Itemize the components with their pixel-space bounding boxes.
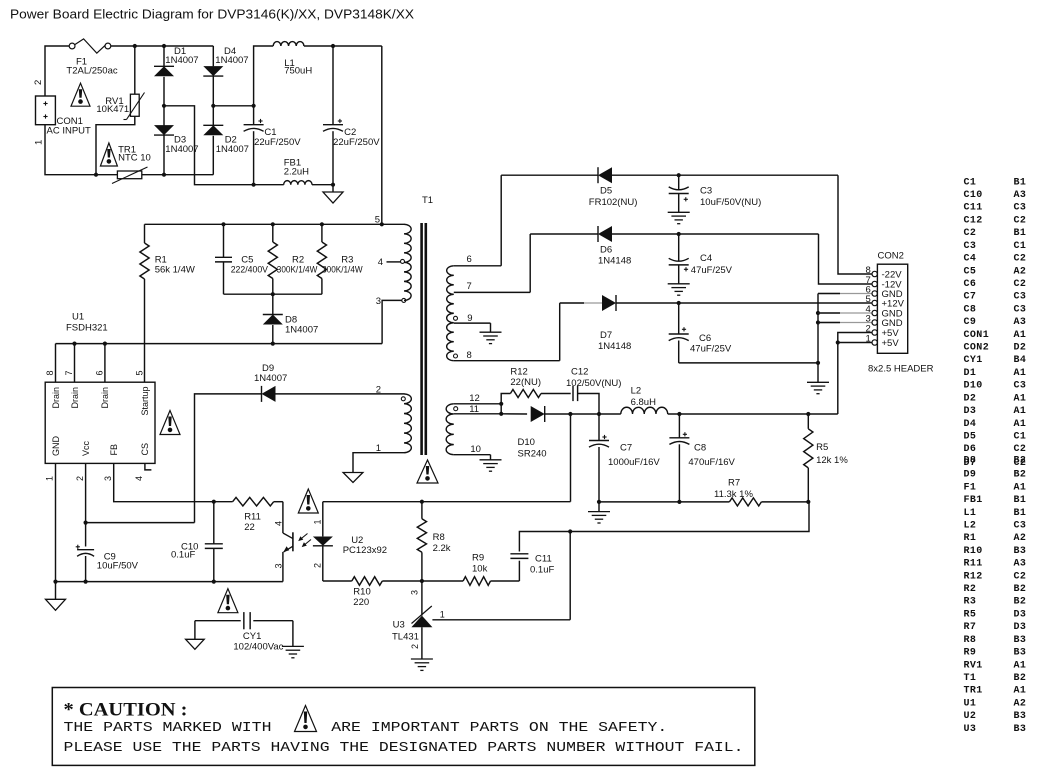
svg-text:U2: U2 [964,711,977,722]
svg-text:D7: D7 [600,330,612,341]
node +5V sense [568,412,572,416]
resistor R1 56k 1/4W [140,224,195,382]
svg-text:47uF/25V: 47uF/25V [691,265,733,276]
node D8 drain bus [271,342,275,346]
svg-text:10: 10 [470,444,481,455]
svg-text:2.2k: 2.2k [433,543,451,554]
svg-text:6.8uH: 6.8uH [631,397,656,408]
svg-text:R1: R1 [964,533,977,544]
svg-text:C1: C1 [1014,241,1027,252]
svg-text:C9: C9 [964,317,977,328]
resistor R11 22 [214,497,283,533]
svg-text:9: 9 [467,313,472,324]
capacitor C1 22uF/250V [244,104,302,187]
wire bridge negative to lower rail [164,106,254,185]
svg-text:A1: A1 [1014,660,1027,671]
svg-text:5: 5 [375,214,380,225]
transformer pin 3 [376,296,406,307]
safety mark below T1 [417,460,438,483]
svg-text:10uF/50V(NU): 10uF/50V(NU) [700,197,761,208]
node C6 +12V [677,301,681,305]
svg-text:8: 8 [467,350,472,361]
svg-text:6: 6 [95,370,105,375]
resistor R12 22(NU) [501,367,571,404]
svg-text:C3: C3 [1014,381,1027,392]
ground C3 [668,212,690,223]
safety mark near CON1 [71,83,90,106]
wire aux pin1 to ground [343,443,404,483]
capacitor C7 1000uF/16V [589,414,660,502]
svg-text:R10: R10 [353,587,370,598]
svg-text:1N4007: 1N4007 [285,324,318,335]
svg-text:TR1: TR1 [964,686,983,697]
svg-text:11: 11 [469,404,479,415]
resistor R8 2.2k [417,502,451,581]
svg-text:C2: C2 [1014,571,1027,582]
svg-text:220: 220 [353,597,369,608]
svg-text:GND: GND [51,436,61,457]
svg-text:22uF/250V: 22uF/250V [254,137,301,148]
svg-text:C3: C3 [1014,304,1027,315]
wire sense to divider [570,502,809,532]
svg-text:B1: B1 [1014,508,1027,519]
svg-text:CON2: CON2 [878,251,904,262]
svg-text:R7: R7 [964,622,977,633]
svg-text:3: 3 [410,590,420,595]
svg-text:B2: B2 [1014,584,1027,595]
svg-text:750uH: 750uH [284,66,312,77]
diode D8 1N4007 [263,294,318,343]
svg-text:10K471: 10K471 [96,104,129,115]
svg-text:C7: C7 [620,443,632,454]
svg-text:1N4007: 1N4007 [165,55,198,66]
svg-text:3: 3 [376,296,381,307]
svg-text:R5: R5 [964,609,977,620]
svg-text:10k: 10k [472,563,488,574]
diode D5 FR102(NU) [501,167,838,208]
ground C4 [668,284,690,295]
svg-text:D9: D9 [964,470,977,481]
svg-text:C12: C12 [964,215,983,226]
svg-text:* CAUTION :: * CAUTION : [64,700,188,721]
svg-text:C2: C2 [1014,444,1027,455]
wire -12V to CON2 pin7 [819,234,873,284]
diode D2 1N4007 [203,106,249,175]
svg-text:D10: D10 [518,437,535,448]
svg-text:D8: D8 [964,455,977,466]
ferrite bead FB1 2.2uH [254,158,333,185]
svg-text:C2: C2 [964,228,977,239]
svg-text:Power Board Electric Diagram f: Power Board Electric Diagram for DVP3146… [10,7,414,22]
svg-text:T2AL/250ac: T2AL/250ac [66,66,117,77]
node R8 top [420,500,424,504]
svg-text:B1: B1 [1014,177,1027,188]
transformer pin 11 wire [454,404,501,415]
svg-text:U1: U1 [72,311,84,322]
svg-text:CY1: CY1 [964,355,983,366]
IC U1 FSDH321 [45,311,156,481]
wire GND pin1 down [55,463,57,581]
svg-text:C8: C8 [964,304,977,315]
ground after FB1 [323,185,343,203]
svg-text:2: 2 [33,80,44,85]
node C8 +5V [677,412,681,416]
svg-text:6: 6 [467,254,472,265]
svg-text:D4: D4 [964,419,977,430]
svg-text:C3: C3 [700,186,712,197]
svg-text:1: 1 [440,610,445,620]
wire +DC rail to transformer [381,46,383,224]
svg-text:U3: U3 [393,620,405,631]
wire GND to CON2 pin6 [818,293,872,295]
svg-text:470uF/16V: 470uF/16V [688,457,735,468]
svg-text:L1: L1 [964,508,977,519]
ground secondary GND [807,382,829,393]
wire AC line top rail [111,45,214,47]
transformer pin 7 wire [454,281,530,292]
safety mark TR1 [100,143,117,166]
capacitor C3 10uF/50V(NU) [669,175,762,212]
capacitor C9 10uF/50V [76,545,139,582]
svg-text:R11: R11 [244,512,261,523]
svg-text:C6: C6 [964,279,977,290]
svg-text:3: 3 [274,563,284,568]
wire CS pin4 stub [145,463,152,470]
svg-text:B2: B2 [1014,455,1027,466]
wire drain bus to transformer pin3 [382,300,402,343]
transformer T1 secondary low winding [446,404,454,455]
wire pin8 up to D7 [559,303,561,361]
resistor R2 300K/1/4W [268,224,317,294]
svg-text:A1: A1 [1014,686,1027,697]
svg-text:4: 4 [274,521,284,526]
svg-text:Startup: Startup [140,386,150,415]
node R1 HV [221,222,225,226]
svg-text:4: 4 [378,257,383,268]
wire secondary GND vertical [817,294,819,383]
svg-text:Drain: Drain [51,387,61,409]
svg-text:47uF/25V: 47uF/25V [690,344,732,355]
svg-text:C2: C2 [1014,254,1027,265]
svg-text:FSDH321: FSDH321 [66,323,108,334]
wire CON1 pin1 AC2 rail [45,125,213,175]
svg-text:C6: C6 [699,333,711,344]
svg-text:7: 7 [64,370,74,375]
svg-text:1000uF/16V: 1000uF/16V [608,457,660,468]
svg-text:C7: C7 [964,292,977,303]
inductor L1 750uH [254,42,382,106]
svg-text:8x2.5 HEADER: 8x2.5 HEADER [868,364,934,375]
svg-text:C2: C2 [1014,279,1027,290]
svg-text:PC123x92: PC123x92 [343,545,387,556]
svg-text:B1: B1 [1014,495,1027,506]
svg-text:R9: R9 [964,648,977,659]
svg-text:D3: D3 [1014,622,1027,633]
svg-text:300K/1/4W: 300K/1/4W [322,265,363,276]
svg-text:R3: R3 [964,597,977,608]
node GND pin3 [816,320,873,324]
transformer pin 6 wire [454,254,501,266]
diode D3 1N4007 [154,106,199,175]
wire FB pin3 to feedback node [114,463,214,501]
svg-text:D3: D3 [964,406,977,417]
svg-text:56k 1/4W: 56k 1/4W [155,265,195,276]
svg-text:C3: C3 [1014,520,1027,531]
node C10 gnd [212,580,216,584]
caution note box [52,688,755,766]
svg-text:1: 1 [34,140,45,145]
svg-text:AC INPUT: AC INPUT [47,126,92,137]
svg-text:C5: C5 [964,266,977,277]
node divider R5-R7 [806,500,810,504]
svg-text:D5: D5 [600,186,612,197]
resistor R5 12k 1% [804,414,849,502]
svg-text:0.1uF: 0.1uF [530,564,554,575]
svg-text:FR102(NU): FR102(NU) [589,197,638,208]
diode D7 1N4148 [560,295,873,352]
diode D10 SR240 [501,406,570,459]
svg-text:B2: B2 [1014,470,1027,481]
svg-text:L2: L2 [631,385,642,396]
svg-text:B3: B3 [1014,724,1027,735]
svg-text:D6: D6 [600,245,612,256]
svg-text:C2: C2 [1014,215,1027,226]
svg-text:102/50V(NU): 102/50V(NU) [566,378,621,389]
node TL431 cathode [420,579,424,583]
svg-text:Drain: Drain [100,387,110,409]
svg-text:R8: R8 [964,635,977,646]
svg-text:7: 7 [467,281,472,292]
svg-text:B2: B2 [1014,673,1027,684]
wire Vcc pin2 down [85,463,87,546]
svg-text:L2: L2 [964,520,977,531]
svg-text:12: 12 [469,393,480,404]
node FB network [212,500,216,504]
svg-text:2: 2 [312,563,322,568]
svg-text:A3: A3 [1014,559,1027,570]
svg-text:22: 22 [244,522,255,533]
svg-text:1: 1 [312,519,322,524]
node C7 gnd [597,500,601,504]
node pin12 junction [499,402,503,406]
svg-text:1: 1 [45,476,55,481]
svg-text:C11: C11 [535,553,552,564]
svg-text:5: 5 [135,370,145,375]
wire +5V to CON2 pins [836,333,873,415]
svg-text:10uF/50V: 10uF/50V [97,561,139,572]
svg-text:B2: B2 [1014,597,1027,608]
svg-text:C11: C11 [964,203,983,214]
transformer pin 4 stub [378,257,405,268]
svg-text:TL431: TL431 [392,632,419,643]
ground U3 [411,659,433,670]
wire primary ground rail [53,580,283,584]
transformer pin 9 to ground [454,313,502,344]
diode D6 1N4148 [530,226,818,267]
svg-text:R7: R7 [728,478,740,489]
svg-text:C1: C1 [1014,432,1027,443]
svg-text:102/400Vac: 102/400Vac [233,641,283,652]
svg-text:R2: R2 [964,584,977,595]
thermistor TR1 NTC 10 [112,145,151,184]
wire primary HV rail [145,223,405,225]
transformer pin 12 wire [454,393,502,411]
diode D9 1N4007 [195,363,405,523]
svg-text:R10: R10 [964,546,983,557]
node R2 HV [271,222,275,226]
svg-text:B3: B3 [1014,635,1027,646]
svg-text:D2: D2 [964,393,977,404]
svg-text:Vcc: Vcc [81,440,91,456]
wire CON1 pin2 to fuse [45,46,69,96]
svg-text:4: 4 [134,476,144,481]
capacitor C6 47uF/25V [669,303,732,363]
svg-text:A1: A1 [1014,368,1027,379]
svg-text:R12: R12 [510,367,527,378]
svg-text:1: 1 [376,443,381,454]
svg-text:D1: D1 [964,368,977,379]
transformer T1 aux winding [376,384,412,452]
svg-text:22uF/250V: 22uF/250V [333,137,380,148]
wire CY1 right to earth [282,621,304,658]
node drain pin7 [72,342,76,346]
svg-text:C4: C4 [964,254,977,265]
safety mark near U1 startup [160,411,180,435]
svg-text:C3: C3 [1014,292,1027,303]
capacitor C5 222/400V [215,224,269,294]
node drain pin6 [103,342,107,346]
svg-text:NTC 10: NTC 10 [118,153,151,164]
node C8 gnd [677,500,681,504]
svg-text:U3: U3 [964,724,977,735]
svg-text:ARE IMPORTANT PARTS ON THE SAF: ARE IMPORTANT PARTS ON THE SAFETY. [331,721,667,736]
connector CON1 AC INPUT [33,80,91,145]
svg-text:A2: A2 [1014,266,1027,277]
node C7 +5V [597,412,601,416]
component location table [964,177,1027,735]
node bridge negative (D1-D3) [162,104,166,108]
svg-text:A2: A2 [1014,698,1027,709]
svg-text:A3: A3 [1014,190,1027,201]
node C9 Vcc gnd [84,580,88,584]
svg-text:3: 3 [103,476,113,481]
svg-text:C3: C3 [1014,203,1027,214]
svg-text:CS: CS [140,443,150,456]
transformer T1 primary winding [404,224,411,300]
svg-text:CON1: CON1 [964,330,990,341]
svg-text:1N4007: 1N4007 [216,144,249,155]
svg-text:CON2: CON2 [964,343,990,354]
node +DC transformer pin5 [375,214,384,226]
svg-text:D5: D5 [964,432,977,443]
resistor R10 220 [323,577,422,609]
svg-text:R12: R12 [964,571,983,582]
node Vcc - D9 supply [84,521,88,525]
node C6 gnd [816,361,820,365]
safety mark in caution box [295,706,317,732]
svg-text:12k 1%: 12k 1% [816,455,848,466]
svg-text:11.3k 1%: 11.3k 1% [714,489,753,500]
wire C6 gnd row [679,362,818,364]
wire CY1 left to chassis [186,621,205,650]
svg-text:F1: F1 [964,482,977,493]
node bridge positive (D4-D2) [211,104,215,108]
svg-text:1N4148: 1N4148 [598,256,631,267]
varistor RV1 10K471 [96,46,144,120]
title [10,7,414,22]
svg-text:D3: D3 [1014,609,1027,620]
svg-text:1: 1 [866,334,871,345]
wire +5V feedback rail [323,501,571,503]
transformer T1 core [422,195,433,455]
resistor R3 300K/1/4W [317,224,362,294]
svg-text:FB: FB [109,444,119,456]
node D3 cathode / AC2 [162,173,166,177]
node L1 - C2 [331,44,335,48]
node ref sense [568,529,572,533]
wire +5V rail drop [570,414,572,502]
svg-text:U1: U1 [964,698,977,709]
capacitor C10 0.1uF [171,502,223,582]
optocoupler U2 LED side [312,502,333,581]
svg-text:8: 8 [45,370,55,375]
svg-text:2.2uH: 2.2uH [284,167,309,178]
svg-text:2: 2 [376,384,381,395]
svg-text:A1: A1 [1014,419,1027,430]
svg-text:A1: A1 [1014,393,1027,404]
node D1 cathode / AC1 [162,44,166,48]
svg-text:A1: A1 [1014,482,1027,493]
inductor L2 6.8uH [621,385,838,414]
wire RV1 bottom to AC2 rail [96,116,135,174]
svg-text:1N4007: 1N4007 [165,144,198,155]
node C4 -12V [677,232,681,236]
capacitor C2 22uF/250V [323,46,380,187]
svg-text:T1: T1 [964,673,977,684]
svg-text:2: 2 [410,644,420,649]
wire pin6 to D5 rail [500,175,502,266]
safety mark near U2 [298,489,318,513]
svg-text:PLEASE USE THE PARTS HAVING TH: PLEASE USE THE PARTS HAVING THE DESIGNAT… [64,741,744,756]
svg-text:C12: C12 [571,367,588,378]
svg-text:D10: D10 [964,381,983,392]
capacitor C4 47uF/25V [669,234,733,284]
svg-text:1N4007: 1N4007 [254,373,287,384]
svg-text:D2: D2 [1014,343,1027,354]
wire snubber bottom bus [224,292,322,296]
wire secondary ground rail [599,501,729,503]
svg-text:THE PARTS MARKED WITH: THE PARTS MARKED WITH [64,721,272,736]
node RV1 return [94,173,98,177]
safety mark near CY1 [218,589,238,613]
node C3 -22V [677,173,681,177]
diode D4 1N4007 [203,46,248,106]
wire +5V main rail [570,413,620,415]
svg-text:D6: D6 [964,444,977,455]
svg-text:B1: B1 [1014,228,1027,239]
resistor R9 10k [422,552,520,585]
svg-text:R11: R11 [964,559,983,570]
resistor R7 11.3k 1% [714,478,808,506]
svg-text:A1: A1 [1014,406,1027,417]
svg-text:R5: R5 [816,442,828,453]
wire pin7 up [529,234,531,292]
capacitor C12 102/50V(NU) [566,367,621,414]
svg-text:B4: B4 [1014,355,1027,366]
node R3 HV [320,222,324,226]
diode D1 1N4007 [154,46,199,106]
svg-text:Drain: Drain [70,387,80,409]
